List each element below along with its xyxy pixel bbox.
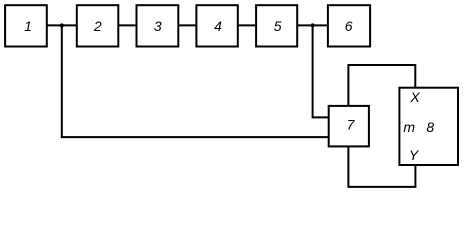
wire block 7 bottom to block 8 Y input (348, 146, 415, 187)
svg-text:5: 5 (274, 18, 282, 34)
wire junction B down and right to block 7 upper input (313, 25, 329, 117)
block 3 (137, 5, 179, 46)
wire block3 to block4 (178, 24, 196, 26)
wire block1 to block2 (47, 24, 77, 26)
svg-text:X: X (409, 89, 420, 105)
block 2 (77, 5, 119, 46)
svg-text:2: 2 (93, 18, 102, 34)
wire block2 to block3 (118, 24, 136, 26)
block 5 (256, 5, 297, 46)
block 7 (329, 106, 369, 146)
node junction B (between 5 and 6) (311, 23, 315, 27)
svg-text:1: 1 (24, 18, 32, 34)
svg-text:7: 7 (347, 116, 356, 132)
wire block 7 top to block 8 X input (348, 65, 415, 106)
block 8 (399, 88, 458, 165)
svg-text:3: 3 (154, 18, 162, 34)
wire block4 to block5 (238, 24, 256, 26)
svg-text:6: 6 (345, 18, 353, 34)
svg-text:m: m (403, 119, 415, 135)
wire junction A down and right to block 7 lower input (62, 25, 329, 137)
svg-text:8: 8 (426, 119, 434, 135)
node junction A (between 1 and 2) (60, 23, 64, 27)
block 6 (328, 5, 370, 46)
svg-text:4: 4 (214, 18, 222, 34)
block 1 (5, 5, 47, 46)
wire block5 to block6 (297, 24, 328, 26)
block 4 (196, 5, 237, 46)
